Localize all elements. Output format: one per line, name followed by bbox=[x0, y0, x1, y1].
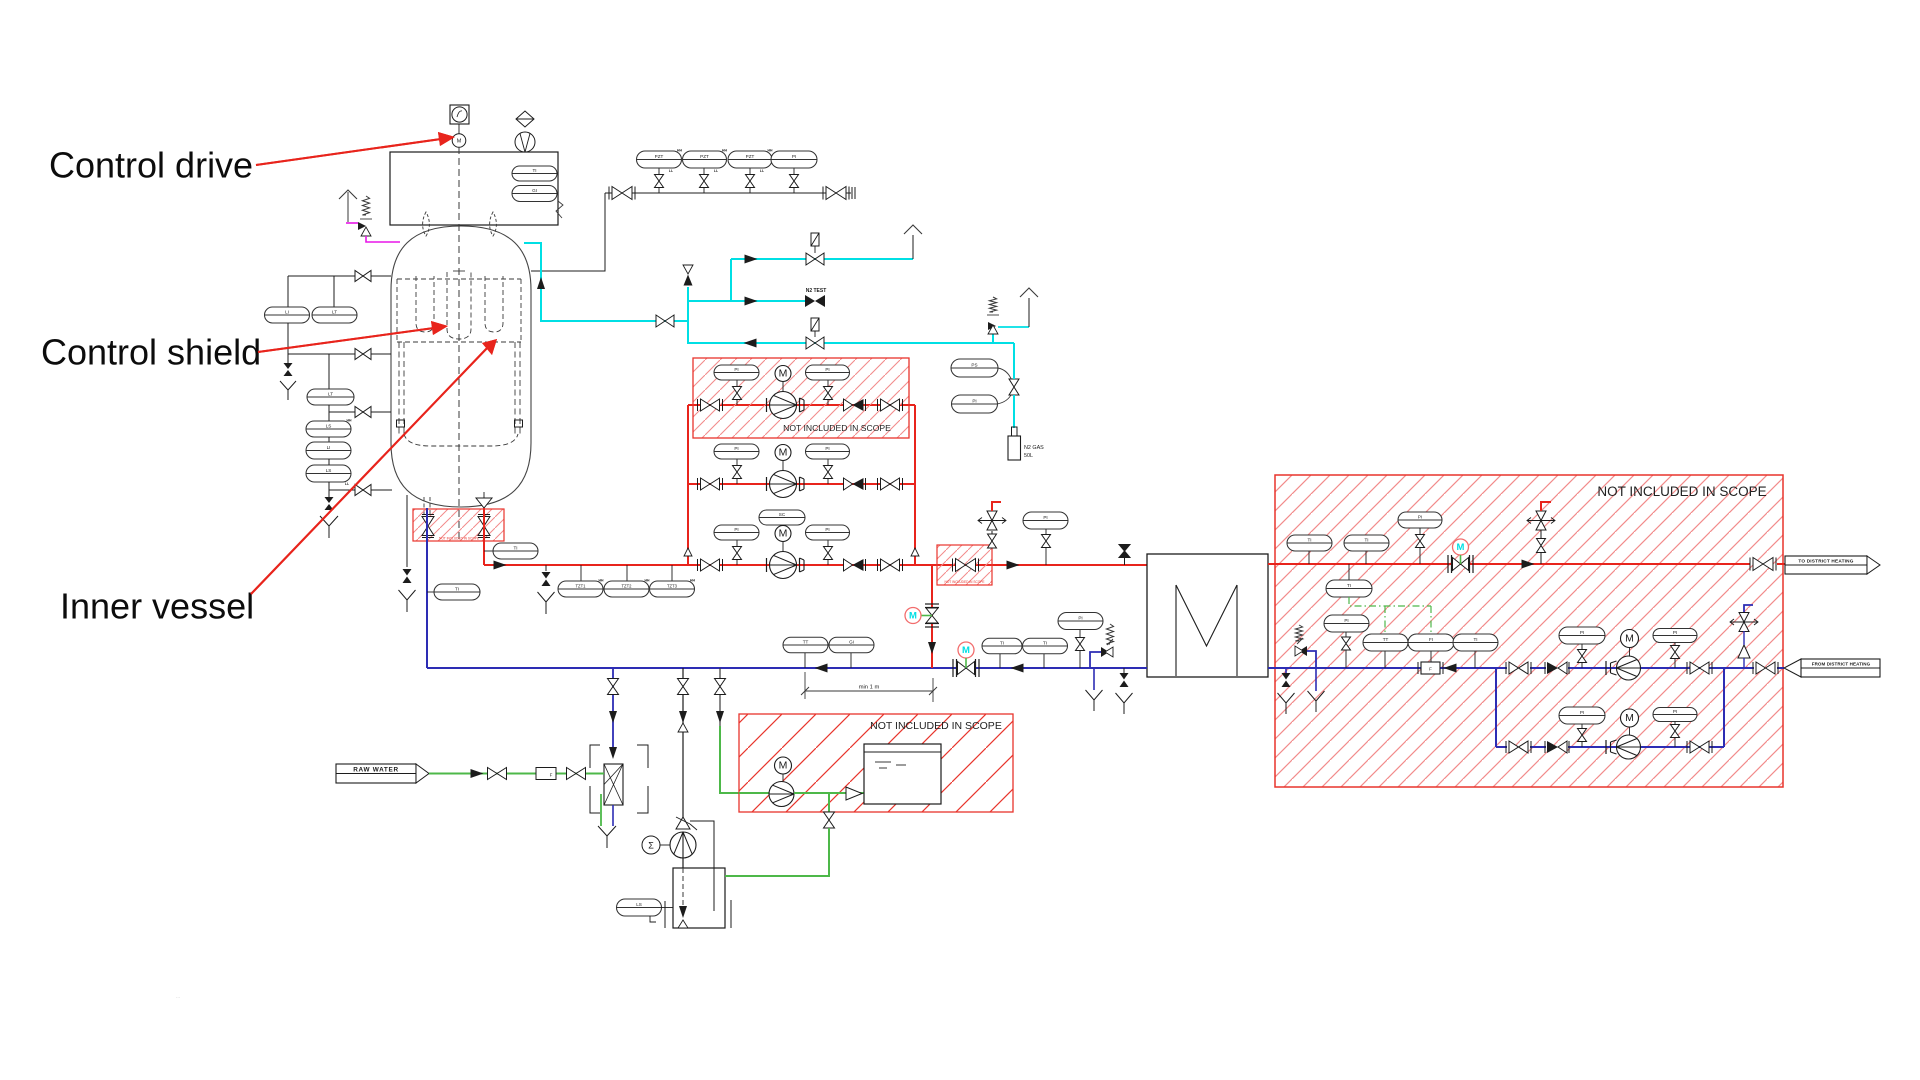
auxiliary tank bbox=[673, 868, 725, 928]
svg-text:PI: PI bbox=[1673, 709, 1677, 714]
control rod tube left dashed bbox=[416, 276, 434, 332]
pipe: green feed over hatch bbox=[739, 792, 769, 794]
flow arrow red after sample box bbox=[1007, 561, 1020, 570]
instrument PI dh red bbox=[1398, 512, 1442, 528]
pipe: cyan branch upper bbox=[688, 300, 806, 302]
instrument TZT3 bbox=[671, 565, 673, 581]
pipe: manifold drop to vessel line bbox=[604, 193, 606, 271]
isolation valve red side bbox=[478, 514, 490, 516]
instrument PI row right bbox=[827, 459, 829, 466]
instrument TI dh 3 bbox=[1348, 564, 1350, 580]
control valve N2 supply bbox=[806, 253, 824, 265]
svg-text:TI: TI bbox=[513, 545, 517, 550]
ion exchanger column bbox=[609, 747, 617, 759]
svg-text:LS: LS bbox=[326, 468, 332, 473]
svg-text:Control shield: Control shield bbox=[41, 332, 261, 373]
svg-text:TI: TI bbox=[532, 168, 536, 173]
svg-text:LL: LL bbox=[669, 169, 673, 173]
instrument PI row left bbox=[736, 540, 738, 547]
motor M of control drive bbox=[458, 124, 460, 134]
valve red dh outlet bbox=[1753, 558, 1773, 571]
svg-text:HH: HH bbox=[645, 579, 650, 583]
svg-text:PI: PI bbox=[734, 367, 738, 372]
instrument PI standby discharge bbox=[1653, 708, 1697, 722]
vessel centerline dashed bbox=[458, 147, 460, 540]
control rod tube middle dashed bbox=[447, 272, 471, 339]
svg-text:NOT INCLUDED IN SCOPE: NOT INCLUDED IN SCOPE bbox=[439, 537, 479, 541]
svg-text:TZT2: TZT2 bbox=[621, 583, 632, 588]
drain valve below LI bbox=[287, 354, 289, 363]
scope box: reactor isolation valves bbox=[413, 509, 504, 541]
instrument PI pump1 suction bbox=[1559, 627, 1605, 644]
svg-text:TZT3: TZT3 bbox=[667, 583, 678, 588]
vessel drain funnel bbox=[399, 590, 416, 600]
leader arrow to control drive bbox=[256, 139, 441, 165]
svg-text:SC: SC bbox=[779, 512, 786, 517]
svg-text:PI: PI bbox=[825, 446, 829, 451]
pipe: red-blue mixing line bbox=[931, 565, 933, 668]
vent tick left riser bbox=[684, 548, 692, 556]
break squiggle bbox=[556, 201, 563, 218]
pipe: blue downcomer from vessel bbox=[426, 508, 428, 668]
instrument TI in top box bbox=[512, 166, 557, 181]
instrument LT lower bbox=[328, 354, 330, 389]
pipe: cyan from vessel dome bbox=[524, 243, 688, 321]
gate valve row inlet bbox=[701, 559, 720, 571]
svg-text:NOT INCLUDED IN SCOPE: NOT INCLUDED IN SCOPE bbox=[945, 580, 985, 584]
svg-text:HH: HH bbox=[690, 579, 695, 583]
gate valve on tap 412 bbox=[355, 407, 371, 418]
pipe: red pump row 2 bbox=[688, 483, 915, 485]
svg-text:TT: TT bbox=[1383, 637, 1389, 642]
svg-text:M: M bbox=[779, 528, 788, 540]
pump motor bbox=[775, 445, 791, 461]
instrument LS tank bbox=[617, 899, 662, 916]
pipe: black line vessel to PZT manifold bbox=[531, 193, 605, 271]
spring relief left of top box bbox=[362, 196, 369, 215]
instrument TI blue main 1 bbox=[999, 654, 1001, 668]
drain valve below LS bbox=[325, 497, 334, 503]
svg-text:TI: TI bbox=[1043, 640, 1047, 645]
valve raw water 1 bbox=[488, 768, 507, 780]
svg-text:M: M bbox=[1457, 542, 1465, 553]
svg-text:F: F bbox=[550, 773, 553, 778]
svg-text:FROM DISTRICT HEATING: FROM DISTRICT HEATING bbox=[1812, 662, 1871, 667]
svg-text:PZT: PZT bbox=[700, 154, 709, 159]
flow arrow cyan lower bbox=[744, 339, 757, 348]
check valve blue dh 1 bbox=[1544, 662, 1546, 674]
instrument head square on control drive bbox=[450, 105, 469, 124]
standby pump bbox=[1605, 740, 1607, 754]
svg-text:PI: PI bbox=[1418, 514, 1422, 519]
valve raw water 2 bbox=[567, 768, 586, 780]
thermal plume dashed left nozzle bbox=[423, 212, 430, 236]
makeup pump bbox=[769, 782, 794, 807]
svg-text:TZT1: TZT1 bbox=[575, 583, 586, 588]
branch to standby pump bbox=[1723, 668, 1725, 747]
pipe: pump to tank bbox=[682, 858, 684, 868]
instrument TZT2 bbox=[626, 565, 628, 581]
valve in sample cooler box bbox=[956, 559, 976, 572]
pipe: cyan junction riser bbox=[687, 301, 689, 343]
instrument PI nitrogen bbox=[952, 395, 998, 413]
instrument LI 2 bbox=[328, 437, 330, 442]
scope box: sample cooler bbox=[937, 545, 992, 585]
pipe: green pump discharge bbox=[794, 792, 864, 794]
svg-text:Control drive: Control drive bbox=[49, 145, 253, 186]
svg-text:LL: LL bbox=[760, 169, 764, 173]
instrument LT bbox=[312, 307, 357, 323]
heat exchanger bbox=[1147, 554, 1268, 677]
gate valve standby 2 bbox=[1690, 741, 1709, 753]
gate valve on tap 490 bbox=[355, 485, 371, 496]
pipe: red line to district heating bbox=[1268, 563, 1750, 565]
gate valve row inlet bbox=[701, 478, 720, 490]
flow arrow up on cyan riser bbox=[537, 277, 545, 289]
pipe: green tank drain branch bbox=[828, 793, 830, 812]
instrument LS HH bbox=[306, 421, 351, 437]
svg-text:M: M bbox=[779, 447, 788, 459]
svg-text:HH: HH bbox=[677, 149, 682, 153]
four way valve on riser bbox=[987, 511, 997, 530]
pipe: tap line at 490 bbox=[328, 482, 330, 497]
leader overlay control shield bbox=[258, 328, 434, 352]
control rod tube right dashed bbox=[485, 276, 503, 332]
standby pump motor bbox=[1621, 709, 1639, 727]
svg-text:Σ: Σ bbox=[648, 841, 654, 851]
four way valve blue dh bbox=[1744, 605, 1753, 613]
svg-text:GI: GI bbox=[532, 188, 537, 193]
svg-text:Inner vessel: Inner vessel bbox=[60, 586, 254, 627]
motor valve on blue main bbox=[958, 642, 974, 658]
red stub elbow dh bbox=[1541, 502, 1551, 511]
branch: shutdown cooling black bbox=[682, 668, 684, 817]
svg-text:TI: TI bbox=[1000, 640, 1004, 645]
instrument TI dh 2 bbox=[1365, 551, 1367, 564]
svg-text:HH: HH bbox=[722, 149, 727, 153]
check valve standby bbox=[1544, 741, 1546, 753]
instrument PI row right bbox=[827, 380, 829, 387]
svg-text:LS: LS bbox=[326, 423, 332, 428]
pipe: blue return through dh box bbox=[1268, 667, 1507, 669]
branch: makeup water to ion exchanger bbox=[612, 668, 614, 748]
svg-text:NOT INCLUDED IN SCOPE: NOT INCLUDED IN SCOPE bbox=[870, 720, 1002, 732]
inner vessel support foot right bbox=[515, 420, 523, 427]
instrument PI manifold bbox=[793, 168, 795, 175]
drain funnel below LS bbox=[320, 516, 338, 526]
instrument TI at vessel outlet bbox=[484, 550, 493, 552]
instrument PI row left bbox=[736, 459, 738, 466]
dh pump 1 motor bbox=[1621, 630, 1639, 648]
svg-text:TI: TI bbox=[1364, 537, 1368, 542]
svg-text:NOT INCLUDED IN SCOPE: NOT INCLUDED IN SCOPE bbox=[783, 423, 891, 433]
svg-text:min 1 m: min 1 m bbox=[859, 685, 880, 691]
svg-text:PS: PS bbox=[971, 362, 977, 367]
flow arrow red dh bbox=[1522, 560, 1535, 569]
instrument GI blue main bbox=[850, 652, 852, 668]
flow arrow cyan upper bbox=[745, 255, 758, 264]
N2 gas bottle bbox=[1012, 427, 1018, 436]
pipe: red pump row 1 bbox=[688, 404, 915, 406]
svg-text:PI: PI bbox=[1344, 618, 1348, 623]
check valve green bbox=[846, 787, 862, 800]
pipe: red primary supply main bbox=[483, 508, 485, 565]
vessel top box (control drive housing) bbox=[390, 152, 558, 225]
svg-text:PI: PI bbox=[792, 154, 796, 159]
pipe: standby pump row bbox=[1495, 668, 1497, 747]
pump motor bbox=[775, 366, 791, 382]
svg-text:M: M bbox=[779, 760, 788, 772]
svg-text:PI: PI bbox=[825, 527, 829, 532]
check valve row bbox=[844, 478, 853, 490]
flow arrow blue main 1 bbox=[815, 664, 828, 673]
inner vessel wall dashed left bbox=[398, 342, 400, 436]
green dash-dot control signal bbox=[1349, 597, 1431, 606]
relief valve on N2 header bbox=[992, 334, 994, 343]
svg-text:TT: TT bbox=[803, 639, 809, 644]
svg-text:TO DISTRICT HEATING: TO DISTRICT HEATING bbox=[1798, 559, 1853, 564]
pipe: level tap line upper bbox=[288, 275, 391, 277]
water storage tank bbox=[864, 744, 941, 804]
closed blowdown valve on red main bbox=[1124, 557, 1126, 565]
drain below column bbox=[598, 826, 616, 836]
flow arrow cyan to N2 test bbox=[745, 297, 758, 306]
flow arrow raw water bbox=[471, 769, 484, 778]
gate valve on upper tap bbox=[355, 271, 371, 282]
instrument PS nitrogen bbox=[951, 359, 998, 377]
leader arrow to control shield bbox=[258, 328, 434, 352]
pipe: raw water line green bbox=[429, 773, 604, 775]
pipe: blue return main bbox=[427, 667, 1147, 669]
gate valve blue dh 2 bbox=[1690, 662, 1709, 674]
flow arrow down mixing line bbox=[928, 642, 936, 654]
vent chevron left of top box bbox=[339, 190, 357, 199]
gate valve row inlet bbox=[701, 399, 720, 411]
drain blue dh 1 bbox=[1285, 668, 1287, 673]
svg-text:PZT: PZT bbox=[655, 154, 664, 159]
pipe: column outlet bbox=[612, 805, 614, 826]
pipe: red loop left riser bbox=[687, 405, 689, 565]
vent to atmosphere cyan upper bbox=[912, 235, 914, 259]
leader overlay inner vessel bbox=[251, 346, 489, 594]
instrument TI on downcomer bbox=[427, 591, 434, 593]
filter F raw water bbox=[536, 768, 556, 780]
instrument PI pump1 discharge bbox=[1653, 629, 1697, 643]
svg-text:M: M bbox=[1625, 712, 1634, 724]
isolation valve blue side bbox=[422, 514, 434, 516]
recirculation pump bbox=[766, 398, 768, 412]
svg-text:···: ··· bbox=[176, 995, 180, 1000]
motor valve red dh bbox=[1453, 539, 1469, 555]
pipe: tap line at 412 bbox=[328, 405, 330, 421]
svg-text:TI: TI bbox=[1347, 583, 1351, 588]
svg-text:LI: LI bbox=[327, 445, 331, 450]
totalizer instrument bbox=[642, 836, 660, 854]
instrument TT blue main bbox=[804, 652, 806, 668]
pipe: level tap line mid bbox=[287, 323, 289, 354]
stem LI bbox=[287, 276, 289, 307]
svg-text:HH: HH bbox=[347, 419, 352, 423]
inner vessel support foot left bbox=[397, 420, 405, 427]
svg-text:PI: PI bbox=[734, 527, 738, 532]
drain on red main bbox=[545, 565, 547, 571]
stem LT bbox=[333, 276, 335, 307]
drain blue main right bbox=[1123, 668, 1125, 673]
svg-text:PZT: PZT bbox=[746, 154, 755, 159]
instrument PI red main bbox=[1023, 512, 1068, 529]
instrument PZT 2 bbox=[703, 168, 705, 175]
svg-text:PI: PI bbox=[972, 398, 976, 403]
svg-text:FI: FI bbox=[1429, 637, 1433, 642]
instrument PI standby suction bbox=[1559, 707, 1605, 724]
svg-text:F: F bbox=[1429, 667, 1432, 672]
instrument PI blue dh bbox=[1324, 615, 1369, 632]
svg-text:PI: PI bbox=[734, 446, 738, 451]
flow arrow red main bbox=[494, 561, 507, 570]
branch: green makeup line bbox=[719, 668, 721, 726]
scope box: district heating interface bbox=[1275, 475, 1783, 787]
recirculation pump bbox=[766, 477, 768, 491]
gate valve row outlet bbox=[881, 478, 900, 490]
FROM DISTRICT HEATING flag bbox=[1784, 659, 1801, 677]
svg-text:M: M bbox=[962, 645, 970, 656]
vessel bottom nozzle dashed pair bbox=[423, 497, 425, 514]
makeup pump motor bbox=[775, 757, 792, 774]
svg-text:NOT INCLUDED IN SCOPE: NOT INCLUDED IN SCOPE bbox=[1597, 484, 1766, 499]
leader arrow to inner vessel bbox=[251, 346, 489, 594]
gate valve row outlet bbox=[881, 399, 900, 411]
scope box: pump row 1 bbox=[693, 358, 909, 438]
gate valve manifold left bbox=[612, 187, 632, 200]
instrument TT dh bbox=[1384, 651, 1386, 668]
instrument GI in top box bbox=[512, 186, 557, 202]
gate valve blue dh 1 bbox=[1509, 662, 1528, 674]
svg-text:RAW WATER: RAW WATER bbox=[353, 767, 399, 774]
svg-text:LS: LS bbox=[636, 902, 642, 907]
svg-text:M: M bbox=[457, 139, 462, 145]
ion exchanger brackets bbox=[590, 745, 600, 768]
vessel outlet nozzle triangle bbox=[483, 492, 485, 498]
instrument PI blue main bbox=[1058, 613, 1103, 630]
leader overlay control drive bbox=[256, 139, 441, 165]
valve on N2 bottle line bbox=[1009, 379, 1019, 395]
instrument LS LL bbox=[328, 459, 330, 465]
svg-text:GI: GI bbox=[849, 639, 854, 644]
instrument TI dh 1 bbox=[1308, 551, 1310, 564]
instrument PZT 3 bbox=[749, 168, 751, 175]
gate valve blue dh inlet bbox=[1756, 662, 1775, 674]
pump motor bbox=[775, 526, 791, 542]
relief valve blue dh bbox=[1307, 651, 1316, 668]
scope box: makeup pump and tank bbox=[739, 714, 1013, 812]
svg-text:LT: LT bbox=[332, 309, 337, 314]
instrument PZT 1 bbox=[658, 168, 660, 175]
svg-text:PI: PI bbox=[1043, 515, 1047, 520]
gate valve on riser bbox=[988, 534, 997, 548]
check valve row bbox=[844, 559, 853, 571]
svg-text:LI: LI bbox=[285, 309, 289, 314]
RAW WATER source arrow bbox=[336, 764, 416, 783]
vent tick right riser bbox=[911, 548, 919, 556]
svg-text:LL: LL bbox=[345, 482, 349, 486]
instrument TI dh blue bbox=[1474, 651, 1476, 668]
vent chevron N2 relief bbox=[1020, 288, 1038, 297]
gate valve cyan line bbox=[656, 315, 674, 327]
svg-text:M: M bbox=[1625, 633, 1634, 645]
check valve row bbox=[844, 399, 853, 411]
relief valve symbol top right bbox=[516, 111, 534, 127]
orifice F blue dh bbox=[1421, 662, 1440, 674]
instrument PI row right bbox=[827, 540, 829, 547]
svg-text:PI: PI bbox=[1580, 630, 1584, 635]
svg-text:PI: PI bbox=[1673, 630, 1677, 635]
svg-text:PI: PI bbox=[1078, 615, 1082, 620]
svg-text:TI: TI bbox=[1307, 537, 1311, 542]
TO DISTRICT HEATING flag bbox=[1785, 556, 1867, 574]
inner vessel bottom dashed bbox=[404, 434, 518, 446]
inner vessel wall dashed right bbox=[514, 342, 516, 436]
flow arrow blue dh bbox=[1444, 664, 1457, 673]
instrument PI row left bbox=[736, 380, 738, 387]
relief valve blue main bbox=[1090, 652, 1101, 668]
motor valve on mixing line bbox=[926, 608, 938, 623]
gate valve standby 1 bbox=[1509, 741, 1528, 753]
svg-text:M: M bbox=[909, 610, 917, 621]
reactor vessel outline bbox=[391, 226, 531, 507]
gate valve row outlet bbox=[881, 559, 900, 571]
pipe: cyan relief outlet bbox=[998, 326, 1029, 328]
svg-text:TI: TI bbox=[1473, 637, 1477, 642]
svg-text:N2 TEST: N2 TEST bbox=[806, 288, 827, 294]
svg-text:HH: HH bbox=[599, 579, 604, 583]
red stub elbow bbox=[992, 502, 1001, 511]
dimension min 1 m bbox=[804, 672, 806, 699]
svg-text:PI: PI bbox=[825, 367, 829, 372]
riser with four way valve dh bbox=[1540, 511, 1542, 564]
vent check on cyan riser bbox=[687, 287, 689, 301]
svg-text:M: M bbox=[779, 368, 788, 380]
drain blue dh 2 bbox=[1315, 668, 1317, 691]
svg-text:PI: PI bbox=[1580, 710, 1584, 715]
regulating valve above pump bbox=[676, 817, 690, 829]
instrument LI bbox=[265, 307, 310, 323]
gate valve on mid tap bbox=[355, 349, 371, 360]
instrument SC pump 3 bbox=[759, 510, 805, 525]
vessel drain line bbox=[406, 495, 408, 567]
flow arrow blue main 2 bbox=[1011, 664, 1024, 673]
pump auxiliary bbox=[670, 832, 696, 858]
dh pump 1 bbox=[1605, 661, 1607, 675]
instrument FI dh bbox=[1430, 651, 1432, 668]
instrument TZT1 bbox=[580, 565, 582, 581]
svg-text:N2 GAS: N2 GAS bbox=[1024, 445, 1044, 451]
riser above sample box bbox=[991, 531, 993, 545]
pipe: cyan lower branch to N2 bottle bbox=[688, 321, 1014, 343]
control shield dashed boundary bbox=[396, 279, 398, 342]
drain funnel below LI bbox=[280, 381, 296, 390]
pipe: red loop right riser bbox=[914, 405, 916, 565]
instrument TI blue main 2 bbox=[1043, 654, 1045, 668]
control valve cyan lower bbox=[806, 337, 824, 349]
svg-text:TI: TI bbox=[455, 586, 459, 591]
drain blue main left bbox=[1093, 668, 1095, 690]
svg-text:LL: LL bbox=[714, 169, 718, 173]
recirculation pump bbox=[766, 558, 768, 572]
svg-text:LT: LT bbox=[328, 391, 333, 396]
thermal plume dashed right nozzle bbox=[490, 212, 497, 236]
pipe: PZT manifold header bbox=[605, 192, 851, 194]
svg-text:50L: 50L bbox=[1024, 453, 1033, 459]
